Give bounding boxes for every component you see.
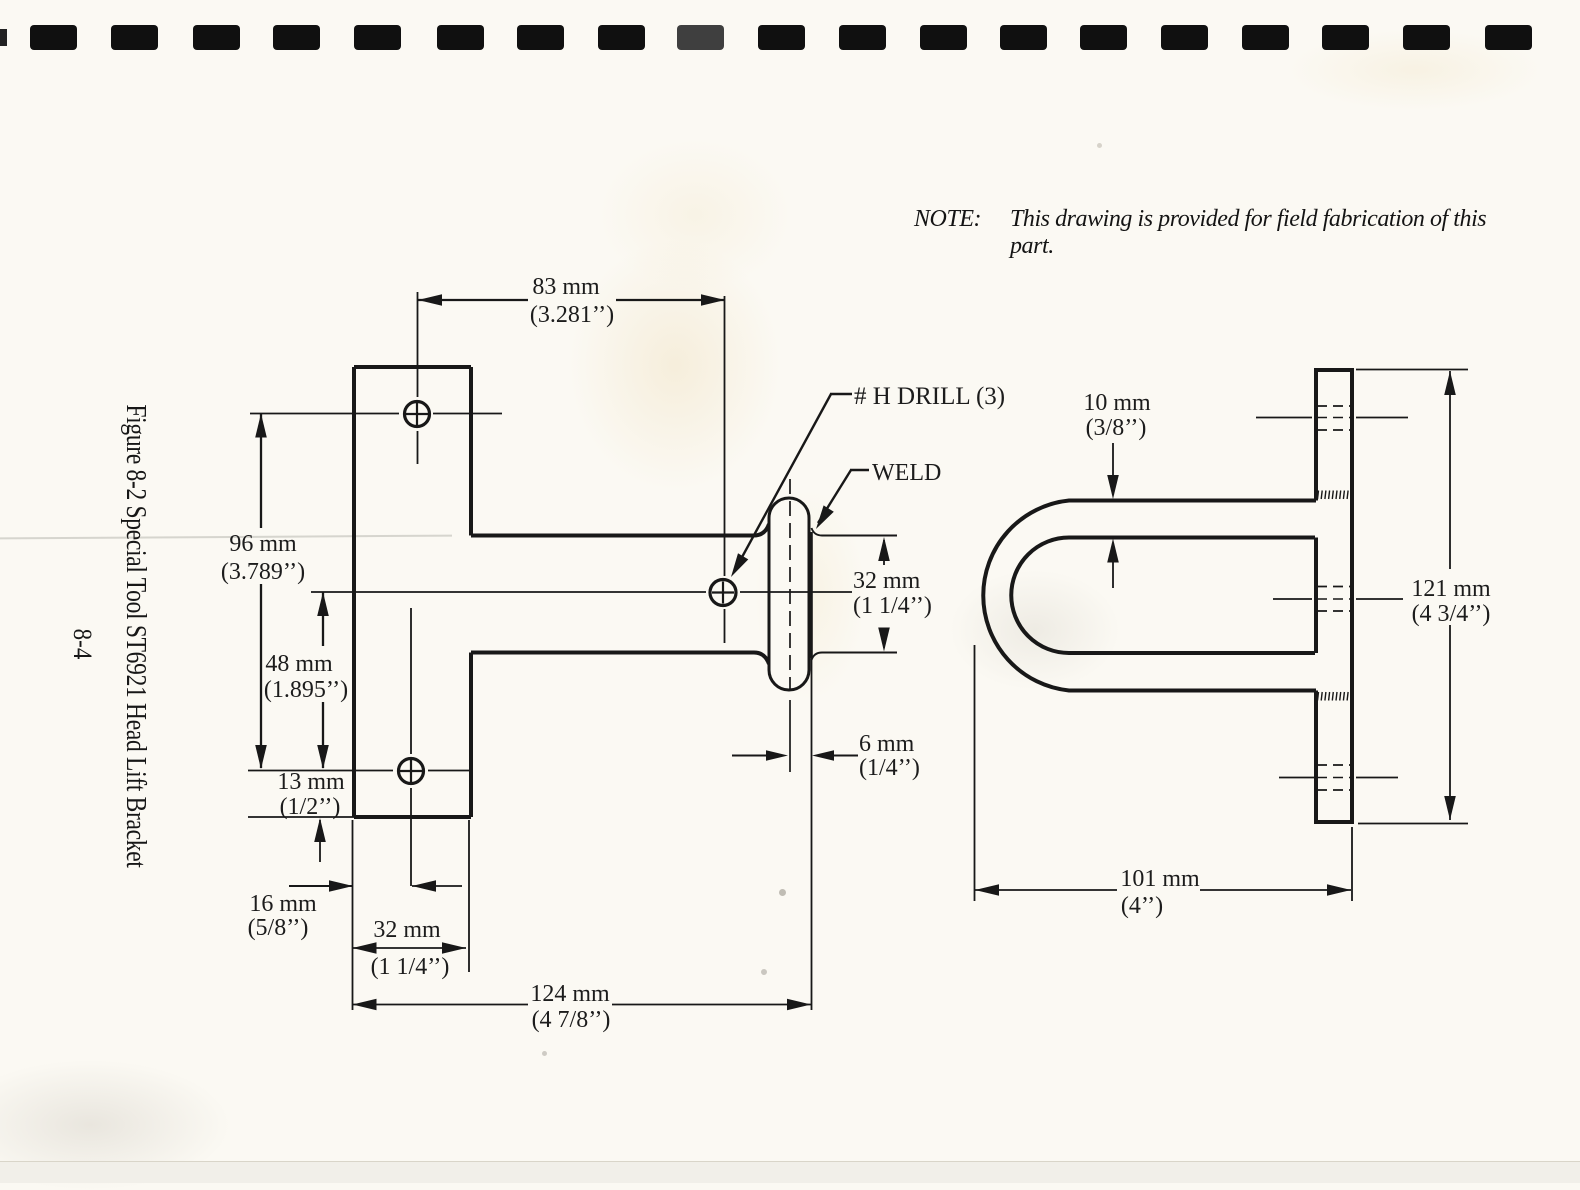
side view: top hole hidden lines <box>1317 405 1352 407</box>
dimension 10 mm arrows <box>1112 443 1114 488</box>
svg-text:32 mm: 32 mm <box>373 917 441 943</box>
front view: arm bottom edge with fillet into boss <box>471 653 769 665</box>
front view: short extension lines right of boss <box>812 528 898 536</box>
svg-text:101 mm: 101 mm <box>1120 866 1200 892</box>
side view: weld hatching lower joint <box>1318 692 1319 701</box>
front view: mounting plate outline <box>354 367 471 817</box>
dimension 96 mm line <box>260 414 262 529</box>
svg-text:32 mm: 32 mm <box>853 568 921 594</box>
binding edge dashes (top) <box>0 0 1580 1</box>
svg-text:10 mm: 10 mm <box>1083 390 1151 416</box>
dimension 101 mm extensions <box>974 645 976 901</box>
side view: U-bolt inner profile <box>1011 538 1315 654</box>
svg-text:83 mm: 83 mm <box>532 274 600 300</box>
side view: plate outline <box>1316 370 1352 822</box>
side view: bottom hole hidden lines <box>1317 764 1352 766</box>
hole H1 <box>405 402 430 427</box>
crease line left <box>0 535 452 540</box>
83mm right extension down to hole H3 <box>724 296 726 576</box>
leader: # H DRILL (3) <box>830 393 852 395</box>
svg-text:# H DRILL (3): # H DRILL (3) <box>854 383 1005 410</box>
hole H1 centerline horizontal (also 96mm top extension) <box>250 413 399 415</box>
svg-text:(3.281’’): (3.281’’) <box>530 302 614 328</box>
13 mm leader arrow below <box>319 820 321 862</box>
side view: top hole centerline <box>1256 417 1312 419</box>
svg-text:48 mm: 48 mm <box>265 651 333 677</box>
hole H2 centerline horizontal (96/48mm bottom extension) <box>248 770 393 772</box>
side view: middle hole centerline <box>1273 598 1312 600</box>
front view: welded boss (capsule) <box>769 498 809 690</box>
front view: horizontal centerline through part <box>311 591 706 593</box>
front view: weld seam / right edge extension line <box>810 532 813 658</box>
svg-text:WELD: WELD <box>872 460 941 486</box>
leader: WELD <box>850 469 869 471</box>
svg-text:(4’’): (4’’) <box>1121 893 1163 919</box>
rotated page number 8-4 <box>67 629 97 660</box>
page bottom edge shadow <box>0 1161 1580 1183</box>
side view: U-bolt outer profile <box>983 501 1316 691</box>
plate bottom edge extension (13mm) <box>248 816 356 818</box>
hole H2 centerline vertical <box>410 608 412 754</box>
svg-text:(1 1/4’’): (1 1/4’’) <box>371 954 450 980</box>
svg-text:(5/8’’): (5/8’’) <box>248 915 309 941</box>
svg-text:(4 7/8’’): (4 7/8’’) <box>532 1007 611 1033</box>
svg-text:(3.789’’): (3.789’’) <box>221 559 305 585</box>
side view: weld hatching upper joint <box>1318 491 1319 500</box>
svg-text:124 mm: 124 mm <box>530 981 610 1007</box>
side view: middle hole hidden lines <box>1317 586 1352 588</box>
hole H1 centerline vertical (also 83mm left extension) <box>417 292 419 397</box>
scanner speckles <box>779 889 786 896</box>
svg-text:13 mm: 13 mm <box>277 769 345 795</box>
dimension 48 mm line <box>322 592 324 646</box>
svg-text:(1.895’’): (1.895’’) <box>264 677 348 703</box>
svg-text:(4 3/4’’): (4 3/4’’) <box>1412 601 1491 627</box>
svg-text:(1/4’’): (1/4’’) <box>859 755 920 781</box>
dimension 32 mm (boss height) arrows <box>883 540 885 565</box>
dimension 32 mm (plate width) line <box>352 947 466 949</box>
dimension 121 mm line <box>1449 371 1451 569</box>
hole H2 <box>399 759 424 784</box>
dimension 124 mm line <box>353 1004 529 1006</box>
rotated figure caption <box>119 404 152 867</box>
dimension 16 mm arrows <box>289 885 353 887</box>
side view: bottom hole centerline <box>1279 777 1316 779</box>
svg-text:(3/8’’): (3/8’’) <box>1086 415 1147 441</box>
32 mm extension lines <box>352 820 354 1010</box>
NOTE text <box>914 206 1574 260</box>
svg-text:16 mm: 16 mm <box>249 891 317 917</box>
svg-text:96 mm: 96 mm <box>229 531 297 557</box>
svg-text:(1 1/4’’): (1 1/4’’) <box>853 593 932 619</box>
dimension 6 mm arrows <box>732 755 766 757</box>
front view: boss vertical centerline (dashed) <box>789 479 791 689</box>
dimension 101 mm line <box>975 889 1117 891</box>
paper texture stains <box>570 240 780 490</box>
svg-text:6 mm: 6 mm <box>859 731 915 757</box>
svg-text:121 mm: 121 mm <box>1411 576 1491 602</box>
front view: arm top edge with fillet into boss <box>471 524 769 536</box>
dimension 83 mm line <box>418 299 528 301</box>
dimension 121 mm extensions <box>1356 369 1468 371</box>
hole H3 <box>710 580 736 606</box>
